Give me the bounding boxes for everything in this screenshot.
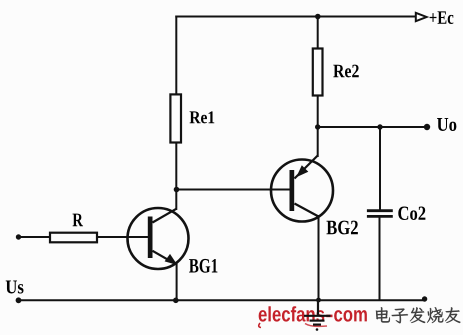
label Re2 bbox=[333, 65, 358, 78]
wire Re2 branch vertical bbox=[317, 17, 319, 128]
node BG1 collector / Re1 / BG2 base bbox=[174, 187, 180, 193]
node bottom rail / BG1 emitter bbox=[173, 298, 179, 304]
wire BG1 base input bbox=[18, 236, 150, 238]
ground bbox=[304, 300, 331, 324]
wire Co2 branch lower bbox=[379, 216, 381, 299]
node top rail / Re2 bbox=[315, 14, 321, 20]
transistor BG2 bbox=[271, 156, 333, 222]
transistor BG1 bbox=[128, 208, 189, 269]
wire bottom rail bbox=[18, 299, 425, 301]
wire top supply rail bbox=[176, 16, 417, 18]
label Re1 bbox=[190, 111, 215, 123]
terminal Uo bbox=[424, 124, 430, 130]
watermark elecfans.com bbox=[259, 306, 367, 327]
terminal input upper bbox=[16, 234, 21, 239]
node output rail / Re2-BG2 bbox=[315, 124, 320, 129]
resistor Re1 bbox=[170, 94, 181, 142]
label +Ec bbox=[430, 11, 454, 24]
label R bbox=[73, 214, 83, 227]
terminal label Uo bbox=[437, 118, 456, 131]
label Co2 bbox=[398, 207, 425, 220]
capacitor Co2 bbox=[367, 211, 393, 217]
wire interstage (BG1 collector to BG2 base) bbox=[177, 189, 290, 191]
terminal input lower (Us) bbox=[16, 297, 22, 303]
wire Co2 branch upper bbox=[379, 127, 381, 211]
resistor Re2 bbox=[313, 49, 323, 96]
node output rail / Co2 bbox=[377, 124, 382, 129]
terminal label Us bbox=[6, 281, 24, 294]
bottom rail right end mark bbox=[422, 296, 427, 301]
resistor R bbox=[50, 233, 97, 243]
wire BG2 emitter vertical bbox=[317, 127, 319, 156]
label BG2 bbox=[326, 221, 357, 235]
wire BG1 emitter vertical bbox=[176, 265, 178, 301]
wire left vertical (Re1 branch / BG1 collector) bbox=[175, 17, 177, 210]
wire BG2 collector vertical bbox=[318, 216, 320, 300]
wire output rail to Uo bbox=[318, 126, 426, 128]
watermark 电子发烧友 bbox=[376, 307, 461, 323]
label BG1 bbox=[189, 259, 217, 273]
supply arrow +Ec bbox=[416, 13, 427, 21]
node bottom rail / BG2-ground bbox=[316, 298, 321, 303]
